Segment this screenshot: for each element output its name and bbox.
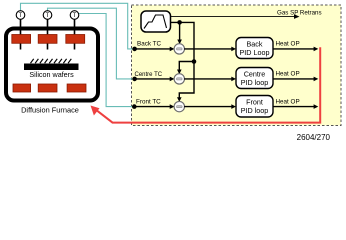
svg-text:2604/270: 2604/270 xyxy=(297,133,331,142)
svg-text:PID loop: PID loop xyxy=(241,106,269,115)
svg-text:Front TC: Front TC xyxy=(136,98,161,105)
svg-text:T: T xyxy=(73,13,77,19)
svg-text:PID loop: PID loop xyxy=(241,78,269,87)
svg-text:Gas SP Retrans: Gas SP Retrans xyxy=(277,9,322,16)
svg-text:Heat OP: Heat OP xyxy=(276,98,300,105)
svg-text:Diffusion Furnace: Diffusion Furnace xyxy=(21,106,79,115)
svg-text:Centre TC: Centre TC xyxy=(135,72,163,78)
svg-text:Back TC: Back TC xyxy=(137,41,161,48)
svg-text:PID Loop: PID Loop xyxy=(240,48,270,57)
svg-text:Heat OP: Heat OP xyxy=(276,71,300,78)
svg-text:T: T xyxy=(19,13,23,19)
svg-text:T: T xyxy=(46,13,50,19)
svg-text:Silicon wafers: Silicon wafers xyxy=(29,70,74,79)
svg-text:Heat OP: Heat OP xyxy=(276,41,300,48)
